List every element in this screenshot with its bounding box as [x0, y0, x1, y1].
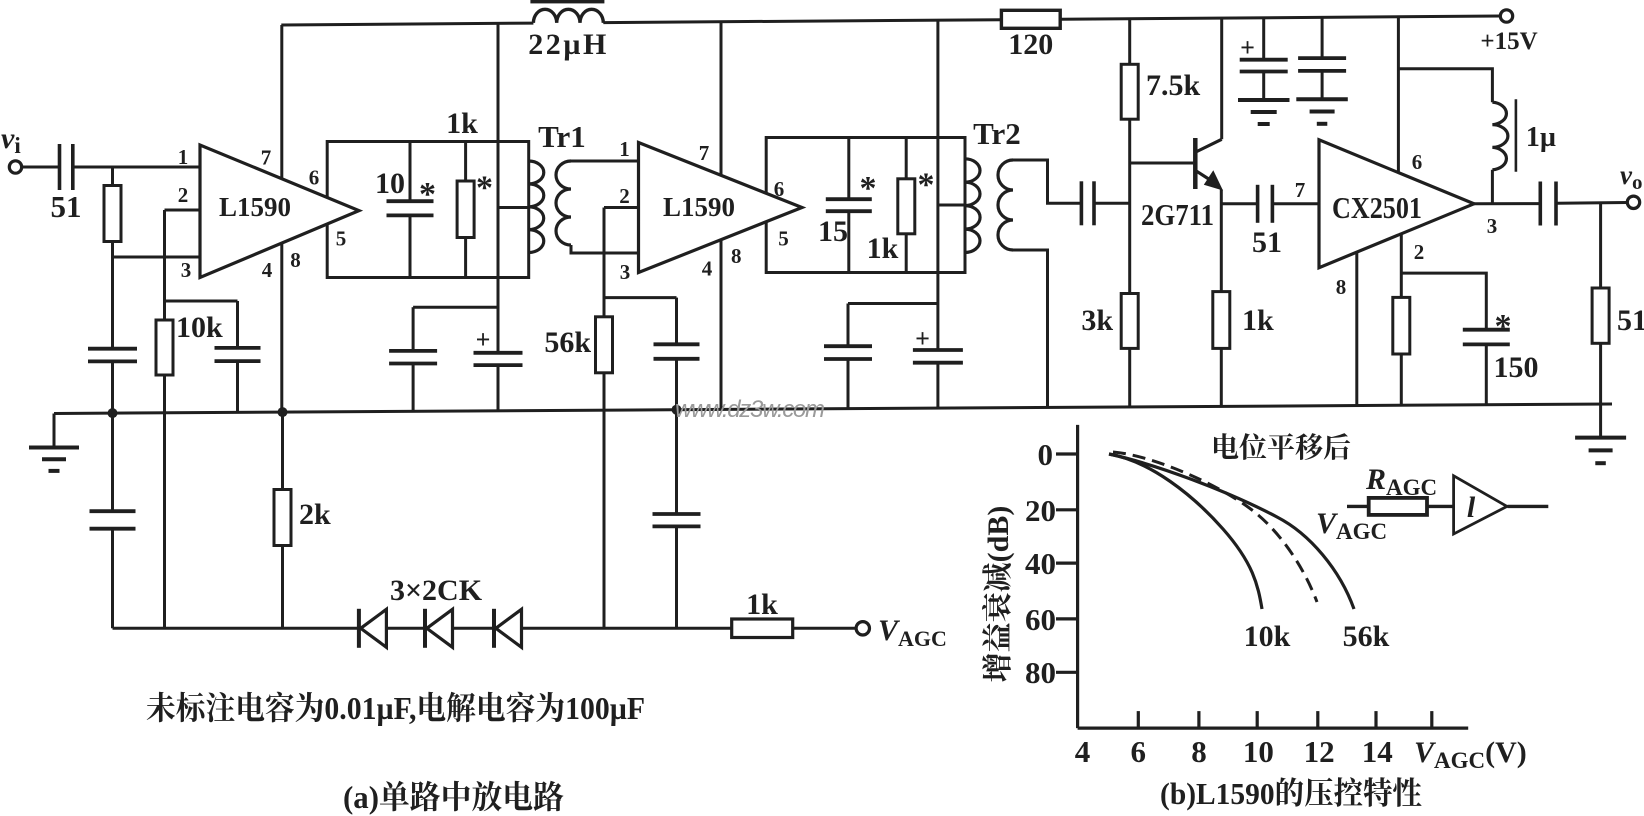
svg-text:(b)L1590的压控特性: (b)L1590的压控特性: [1160, 768, 1422, 813]
graph axes: [1076, 425, 1079, 728]
capacitor C output coupling: [1539, 182, 1543, 226]
svg-text:L1590: L1590: [663, 192, 735, 222]
svg-text:VAGC: VAGC: [878, 614, 947, 651]
capacitor C bypass pin3: [88, 347, 137, 351]
terminal v_o: [1627, 196, 1639, 208]
svg-text:15: 15: [818, 215, 848, 248]
svg-text:RAGC: RAGC: [1365, 463, 1437, 500]
wire Tr1 secondary bottom to pin3: [571, 245, 640, 253]
svg-text:*: *: [860, 170, 877, 207]
node: junction gnd rail / AGC column: [108, 408, 118, 418]
svg-text:L1590: L1590: [219, 192, 291, 222]
svg-text:7: 7: [261, 146, 272, 170]
svg-text:增益衰减(dB): 增益衰减(dB): [973, 506, 1017, 683]
transformer Tr1 center tap: [498, 206, 529, 209]
wire base column: [1128, 19, 1131, 65]
svg-text:3: 3: [181, 258, 192, 282]
resistor R 1k* (tank1): [464, 142, 467, 182]
svg-text:电位平移后: 电位平移后: [1211, 426, 1351, 466]
op-amp U2 L1590: [639, 143, 803, 273]
svg-text:3: 3: [620, 260, 631, 284]
wire pin2 branch to cap150: [1401, 273, 1486, 329]
svg-text:4: 4: [1075, 734, 1091, 769]
tank box stage2: [766, 138, 965, 273]
resistor R 51 output: [1599, 203, 1602, 288]
svg-text:+: +: [1240, 33, 1255, 62]
svg-text:10: 10: [375, 167, 405, 200]
ground symbol cap2: [1296, 97, 1348, 101]
curve dashed (after level shift): [1113, 452, 1317, 602]
wire: V_AGC bus: [113, 627, 359, 630]
curve 56k: [1109, 454, 1354, 609]
capacitor C AGC filter right: [675, 410, 678, 514]
svg-text:1k: 1k: [1242, 304, 1274, 337]
resistor R 120 in supply rail: [1001, 10, 1060, 28]
svg-text:2G711: 2G711: [1141, 197, 1214, 232]
svg-text:22µH: 22µH: [528, 28, 609, 61]
svg-text:8: 8: [1336, 275, 1347, 299]
svg-text:8: 8: [731, 244, 742, 268]
svg-text:3×2CK: 3×2CK: [390, 574, 483, 607]
svg-text:40: 40: [1025, 546, 1056, 581]
terminal v_i input: [9, 161, 21, 173]
svg-text:0: 0: [1038, 437, 1054, 472]
wire Tr2 secondary top: [1013, 160, 1080, 203]
wire pin2 stage2: [604, 206, 639, 209]
capacitor C 51 input coupling: [22, 166, 58, 169]
svg-text:10k: 10k: [1244, 620, 1291, 653]
wire pin6 column: [1397, 17, 1400, 172]
capacitor C 10 (tank1): [409, 142, 412, 202]
resistor R 1k (AGC): [732, 619, 793, 638]
op-amp U3 CX2501: [1319, 140, 1474, 268]
svg-text:(a)单路中放电路: (a)单路中放电路: [343, 772, 564, 816]
terminal V_AGC: [856, 622, 869, 635]
svg-text:未标注电容为0.01µF,电解电容为100µF: 未标注电容为0.01µF,电解电容为100µF: [146, 683, 645, 729]
wire Tr1 secondary top to pin1: [571, 160, 639, 163]
svg-text:5: 5: [778, 227, 789, 251]
wire input bias column: [111, 167, 114, 186]
svg-text:56k: 56k: [1343, 620, 1390, 653]
resistor R 2k: [281, 412, 284, 489]
ground symbol right (output): [1599, 404, 1602, 438]
svg-text:2: 2: [619, 184, 630, 208]
svg-text:3k: 3k: [1081, 304, 1113, 337]
capacitor C bias bypass stage1: [236, 301, 239, 348]
svg-text:20: 20: [1025, 493, 1056, 528]
svg-text:1k: 1k: [867, 232, 899, 265]
svg-text:1µ: 1µ: [1526, 122, 1556, 153]
svg-text:7: 7: [699, 141, 710, 165]
svg-text:6: 6: [1131, 734, 1147, 769]
svg-text:12: 12: [1304, 734, 1335, 769]
x ticks: [1137, 711, 1140, 728]
resistor R 1k (tank2): [905, 138, 908, 179]
svg-text:80: 80: [1025, 655, 1056, 690]
capacitor C 51 coupling to CX2501: [1221, 202, 1256, 205]
svg-text:vi: vi: [1, 122, 21, 158]
wire bypass branch stage1: [413, 306, 498, 309]
svg-text:8: 8: [290, 248, 301, 272]
svg-text:vo: vo: [1620, 160, 1642, 194]
svg-text:*: *: [419, 176, 436, 213]
svg-text:VAGC(V): VAGC(V): [1414, 736, 1527, 773]
svg-text:4: 4: [262, 258, 273, 282]
wire supply column tank1: [497, 23, 500, 352]
y ticks: [1056, 452, 1078, 455]
wire supply/gnd column stage2 (pins 7,4,8): [720, 22, 723, 410]
svg-text:5: 5: [336, 227, 347, 251]
wire: ground rail: [54, 404, 1612, 414]
capacitor C bypass stage2: [847, 304, 850, 347]
svg-text:l: l: [1467, 491, 1476, 524]
svg-text:1: 1: [178, 145, 189, 169]
transformer Tr2 center tap: [938, 204, 965, 207]
wire collector to rail: [1220, 18, 1223, 139]
resistor R 7.5k: [1121, 64, 1138, 119]
svg-text:*: *: [918, 167, 935, 204]
wire pin3 stage1: [113, 256, 201, 259]
svg-text:www.dz3w.com: www.dz3w.com: [675, 396, 825, 423]
svg-text:7.5k: 7.5k: [1146, 69, 1201, 102]
svg-text:2k: 2k: [299, 498, 331, 531]
svg-text:CX2501: CX2501: [1332, 190, 1422, 225]
svg-text:+: +: [915, 324, 930, 353]
wire Tr2 secondary bottom to gnd: [1013, 250, 1048, 407]
svg-text:10k: 10k: [176, 311, 223, 344]
svg-text:Tr1: Tr1: [538, 119, 586, 154]
wire inductor feed: [1398, 69, 1492, 102]
wire: +15V top supply rail: [281, 23, 533, 25]
diode D1 2CK: [357, 609, 361, 648]
svg-text:3: 3: [1487, 214, 1498, 238]
capacitor C 150*: [1463, 328, 1510, 332]
svg-text:4: 4: [702, 257, 713, 281]
inductor L 1u: [1492, 102, 1507, 170]
svg-text:1: 1: [619, 137, 630, 161]
resistor R 56k: [596, 317, 613, 373]
svg-text:51: 51: [1252, 226, 1282, 259]
wire pin2 column: [1400, 233, 1403, 298]
wire supply/gnd column stage1 (pins 7,4,8): [280, 25, 283, 412]
resistor R 3k: [1121, 294, 1138, 349]
svg-text:8: 8: [1191, 734, 1207, 769]
svg-text:2: 2: [1414, 240, 1425, 264]
curve 10k: [1109, 454, 1262, 609]
output wire: [1474, 202, 1539, 205]
svg-text:1k: 1k: [446, 107, 478, 140]
svg-text:7: 7: [1295, 178, 1306, 202]
ground symbol cap1: [1238, 98, 1290, 102]
transistor Q1 2G711: [1130, 162, 1194, 165]
node: bias cap to gnd rail: [672, 405, 682, 415]
capacitor C electrolytic stage2 (+): [913, 348, 963, 352]
capacitor C bypass stage1: [412, 307, 415, 351]
capacitor C bias bypass stage2: [675, 298, 678, 345]
svg-text:2: 2: [178, 183, 189, 207]
wire pin2 stage1: [165, 209, 201, 212]
node: stage1 column to ground rail: [278, 407, 288, 417]
svg-text:Tr2: Tr2: [973, 116, 1021, 151]
svg-text:+15V: +15V: [1480, 28, 1537, 55]
diode D2 2CK: [423, 609, 427, 648]
tank box stage1: [327, 142, 529, 278]
svg-text:150: 150: [1494, 351, 1539, 384]
resistor R input bias (unlabeled): [104, 186, 121, 242]
svg-text:51: 51: [1617, 304, 1644, 337]
svg-text:6: 6: [1412, 150, 1423, 174]
capacitor C electrolytic supply 1: [1262, 18, 1265, 60]
terminal +15V: [1500, 10, 1512, 22]
wire pin8 column: [1355, 252, 1358, 405]
wire supply column tank2: [936, 20, 939, 350]
svg-text:*: *: [1495, 308, 1512, 345]
svg-text:1k: 1k: [746, 588, 778, 621]
resistor R (pin2, unlabeled): [1393, 297, 1410, 354]
op-amp U1 L1590: [200, 145, 359, 278]
svg-text:14: 14: [1362, 734, 1393, 769]
capacitor C coupling to 2G711 base: [1080, 181, 1084, 225]
svg-text:*: *: [476, 170, 493, 207]
capacitor C 15 (tank2): [847, 138, 850, 199]
diode D3 2CK: [492, 609, 496, 648]
svg-text:56k: 56k: [544, 326, 591, 359]
svg-text:+: +: [476, 325, 491, 354]
ground symbol left: [53, 414, 56, 448]
svg-text:6: 6: [309, 166, 320, 190]
capacitor C AGC filter left: [111, 413, 114, 511]
capacitor C electrolytic stage1 (+): [474, 351, 523, 355]
resistor R 1k emitter: [1213, 292, 1230, 349]
svg-text:120: 120: [1008, 28, 1053, 61]
capacitor C supply 2: [1321, 17, 1324, 58]
svg-text:10: 10: [1243, 734, 1274, 769]
resistor R 10k: [156, 320, 173, 375]
wire emitter column: [1220, 190, 1223, 292]
wire bypass branch stage2: [848, 302, 938, 305]
svg-text:60: 60: [1025, 602, 1056, 637]
svg-text:6: 6: [774, 177, 785, 201]
inductor L1 22uH in supply rail: [533, 9, 603, 23]
svg-text:51: 51: [51, 189, 82, 224]
